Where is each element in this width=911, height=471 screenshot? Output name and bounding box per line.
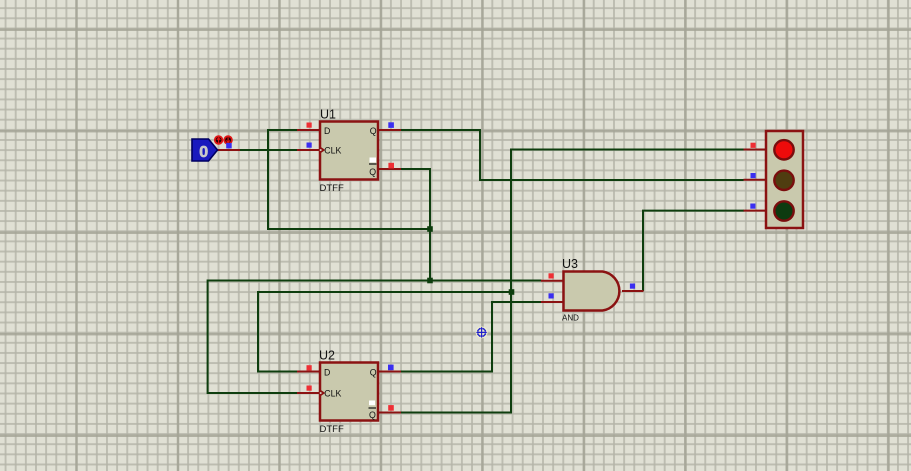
svg-text:Q: Q — [370, 126, 377, 136]
svg-text:DTFF: DTFF — [320, 183, 344, 194]
svg-text:Q: Q — [369, 410, 376, 420]
svg-text:AND: AND — [562, 314, 579, 323]
svg-text:D: D — [324, 367, 330, 377]
svg-text:D: D — [324, 126, 330, 136]
svg-text:CLK: CLK — [324, 388, 341, 398]
svg-text:U2: U2 — [319, 349, 335, 363]
svg-text:CLK: CLK — [324, 145, 341, 155]
svg-text:0: 0 — [199, 144, 208, 161]
svg-text:U3: U3 — [562, 257, 578, 271]
svg-text:U1: U1 — [320, 108, 336, 122]
svg-text:Q: Q — [370, 367, 377, 377]
svg-text:DTFF: DTFF — [320, 424, 344, 435]
svg-text:Q: Q — [369, 167, 376, 177]
